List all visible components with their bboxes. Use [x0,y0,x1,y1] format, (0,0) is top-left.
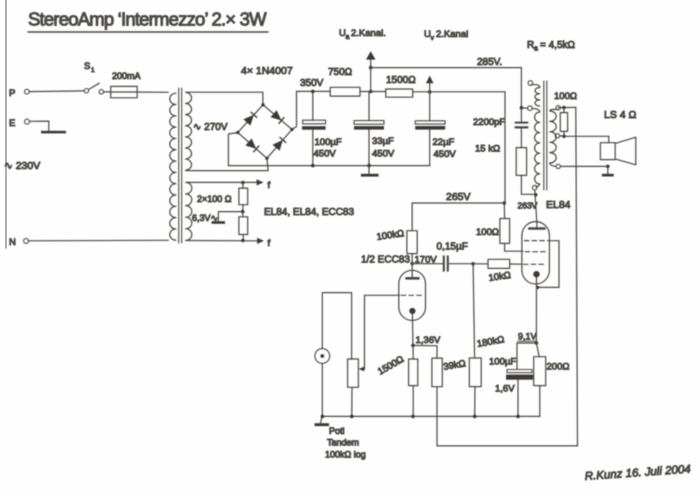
wire cap to grid node [449,263,473,265]
pentode V2 grid g2 [525,251,546,253]
resistor 10kohm grid [473,259,522,268]
wire secondary top to bridge AC1 [187,92,264,105]
diode D2 [271,110,284,123]
svg-text:LS 4 Ω: LS 4 Ω [604,109,637,121]
transformer T1 core [179,88,182,243]
terminal E [9,118,30,129]
resistor 100ohm damping [560,108,567,137]
speaker LS 4ohm [600,137,635,165]
resistor 15kohm [475,144,527,176]
label Ra = 4,5kohm [527,40,576,53]
svg-text:1: 1 [91,67,95,74]
wire cathode to 39k [413,344,437,346]
transformer T2 secondary terminal bottom [556,164,560,168]
terminal P [9,88,29,99]
wire to speaker top [564,136,609,142]
transformer T1 primary winding [170,93,176,240]
svg-text:S: S [84,61,90,72]
switch S1 [84,61,104,94]
wire poti bottom to bus [351,387,353,416]
svg-text:100Ω: 100Ω [476,227,499,238]
wire screen feed [505,243,523,251]
svg-text:450V: 450V [372,149,395,160]
pentode V2 EL84 envelope [522,222,550,284]
label 265V [446,191,471,203]
svg-text:f: f [268,238,271,249]
svg-text:9,1V: 9,1V [518,332,537,342]
svg-text:100µF: 100µF [489,357,516,368]
ground input [315,416,330,426]
svg-text:22µF: 22µF [433,137,455,148]
signature [584,464,691,483]
wire input to poti [322,293,351,359]
svg-text:2200pF: 2200pF [473,117,505,128]
resistor hum 100ohm upper [239,183,248,205]
label 1,6V [495,384,515,395]
svg-text:6,3V∿: 6,3V∿ [192,213,218,223]
wire V2 anode [535,190,537,228]
potentiometer 100k log [348,359,359,387]
svg-text:2×100 Ω: 2×100 Ω [197,194,232,204]
node EL84 grid junction [471,262,475,266]
wire V1 cathode down [411,314,414,346]
svg-text:P: P [9,88,15,99]
capacitor 100uF 1,6V [506,343,536,416]
node speaker hot [562,135,566,139]
arrow heater bottom f [257,238,270,249]
resistor hum 100ohm lower [239,212,248,241]
poti wiper arrow [359,295,365,371]
ground E [41,131,66,134]
svg-text:N: N [9,237,16,248]
wire feedback loop [437,107,578,446]
ground speaker [602,166,614,176]
svg-text:= 4,5kΩ: = 4,5kΩ [540,40,576,51]
svg-text:100µF: 100µF [315,137,342,148]
label Uv 2.Kanal [424,29,468,42]
resistor 200ohm [534,343,546,416]
svg-text:750Ω: 750Ω [328,67,353,78]
wire DC- ground rail [228,164,429,168]
node V1 cathode junction [411,344,415,348]
label LS 4ohm [604,109,637,121]
label 100uF [489,357,516,368]
bridge edge R-T [263,105,292,130]
pentode V2 anode plate [529,227,544,230]
wire rail to preamp [503,92,506,219]
wire snubber to anode [521,175,537,196]
svg-text:4× 1N4007: 4× 1N4007 [241,65,293,77]
svg-text:1/2 ECC83: 1/2 ECC83 [361,255,410,266]
wire snubber mid [520,129,522,148]
transformer T2 secondary winding [550,109,558,166]
resistor 100ohm screen [476,219,510,244]
transformer T1 HV secondary winding [186,92,192,170]
svg-text:StereoAmp ‘Intermezzo’ 2.× 3W: StereoAmp ‘Intermezzo’ 2.× 3W [28,9,267,30]
resistor 100kohm [407,203,417,263]
svg-text:2.Kanal.: 2.Kanal. [351,28,386,39]
label Poti Tandem 100k log [325,426,366,460]
resistor 39kohm feedback [432,346,442,387]
triode V1 cathode [409,308,415,314]
wire center tap to ground [218,212,242,222]
capacitor 2200pF [473,117,528,128]
wire 285V line [371,67,522,69]
wire fuse to transformer [137,91,168,93]
svg-text:v: v [431,35,435,42]
label 2x 100ohm [197,194,232,204]
triode V1 grid [401,294,422,296]
transformer T2 primary terminal bottom [532,185,537,190]
capacitor 0,15uF [437,242,468,271]
svg-text:EL84, EL84, ECC83: EL84, EL84, ECC83 [264,207,354,218]
svg-text:263V: 263V [518,201,538,211]
svg-text:200Ω: 200Ω [547,362,570,373]
label 4x 1N4007 [241,65,293,77]
wire B+ to primary tap [521,107,527,109]
label Ua 2.Kanal [339,28,386,41]
label 285V [477,57,502,68]
resistor 750ohm [328,67,360,96]
wire g3 strap to cathode [536,241,559,289]
label 180kohm [476,334,505,350]
transformer T2 secondary terminal top [556,106,560,110]
wire rail segment 3 [413,91,505,93]
label 100ohm damping [554,91,577,102]
svg-text:∿ 270V: ∿ 270V [193,122,228,133]
wire ground bus [321,415,540,419]
transformer T1 heater winding [186,182,192,240]
svg-text:∿ 230V: ∿ 230V [4,160,40,172]
ground PSU [361,166,379,177]
node Ua junction [369,90,373,94]
wire heater top [187,181,258,185]
svg-text:EL84: EL84 [546,199,571,211]
fuse 200mA [104,71,141,98]
svg-text:0,15µF: 0,15µF [437,242,468,253]
svg-text:Tandem: Tandem [327,438,359,448]
node 285V junction [369,66,373,70]
label EL84 EL84 ECC83 [264,207,354,218]
transformer T2 core [544,81,547,190]
wire V1 grid to poti wiper [365,294,400,296]
bridge edge T-L [238,105,263,133]
bridge edge L-B [238,133,267,159]
node 265V junction [503,201,507,205]
wire tap to speaker node [560,135,564,137]
capacitor 33uF 450V [354,92,395,166]
label 1/2 ECC83 [361,255,410,266]
node V2 cathode junction [535,341,539,345]
pentode V2 grid g3 [524,240,547,242]
transformer T2 primary winding upper [531,85,540,106]
arrow heater top f [257,179,271,191]
svg-text:2.Kanal: 2.Kanal [436,29,468,40]
label 1500ohm cathode [376,354,406,378]
svg-text:33µF: 33µF [372,136,394,147]
label 39kohm [443,358,467,373]
wire E to ground [30,121,49,131]
svg-text:1,6V: 1,6V [495,384,515,395]
svg-text:450V: 450V [434,149,457,160]
takeoff arrow Ua [366,51,376,91]
wire N to transformer [28,239,168,242]
label 9,1V [518,332,537,342]
wire secondary top [558,106,576,110]
wire rail segment 1 [297,90,331,92]
transformer T2 primary tap [528,106,533,111]
svg-text:200mA: 200mA [112,71,141,81]
ground heater [212,221,226,224]
svg-text:350V: 350V [300,78,324,89]
wire secondary bottom to bridge AC2 [186,158,268,170]
terminal N [9,237,28,248]
triode V1 ECC83 envelope [399,270,426,320]
wire P to switch [29,90,84,93]
node Uv junction [428,90,432,94]
capacitor 22uF 450V [415,92,456,166]
wire secondary bottom to speaker [560,165,609,169]
input jack [315,349,330,364]
resistor 1500ohm cathode [409,345,418,416]
svg-text:a: a [346,34,350,41]
label 350V [300,78,324,89]
svg-text:1500Ω: 1500Ω [386,75,416,86]
wire V1 anode [411,264,413,278]
svg-text:100kΩ log: 100kΩ log [325,450,366,460]
label 263V [518,201,538,211]
svg-text:1,36V: 1,36V [416,335,441,346]
wire rail segment 2 [360,91,386,93]
label 100kohm [376,228,405,243]
bridge corner junctions [236,103,294,160]
pentode V2 cathode [533,271,539,277]
capacitor 100uF 450V [302,90,342,166]
label 10kohm [488,270,512,284]
label 1,36V [416,335,441,346]
wire bridge DC+ to rail [292,91,297,129]
node 170V anode [410,262,414,266]
wire heater bottom [187,239,258,243]
wire 265V line [412,202,504,204]
wire V2 cathode down [535,277,537,344]
svg-text:a: a [534,46,538,53]
label 170V [415,255,438,266]
label 6,3V [192,213,218,223]
pentode V2 grid g1 [524,263,547,265]
svg-text:450V: 450V [314,149,337,160]
svg-text:f: f [268,180,271,191]
svg-text:100Ω: 100Ω [554,91,577,102]
label 200ohm [547,362,570,373]
wire V1 anode to cap [412,263,442,265]
label 270V [193,122,228,133]
svg-text:15 kΩ: 15 kΩ [475,144,500,155]
transformer T2 secondary tap [555,134,559,138]
label EL84 [546,199,571,211]
wire bridge DC- to ground rail [228,133,237,166]
triode V1 anode plate [406,277,418,280]
diode D3 [245,138,258,151]
resistor 1500ohm [386,89,413,97]
title [28,9,268,33]
wire input sleeve to bus [321,363,323,416]
svg-text:285V.: 285V. [477,57,502,68]
resistor 180kohm [469,264,481,417]
takeoff arrow Uv [426,76,434,92]
transformer T2 primary terminal top [528,81,533,86]
bridge edge B-R [267,129,292,158]
diode D4 [273,137,286,150]
svg-text:E: E [9,118,15,129]
diode D1 [243,112,256,125]
svg-text:265V: 265V [446,191,471,203]
node heater center tap [241,205,245,214]
label 1500ohm [386,75,416,86]
svg-text:Poti: Poti [329,426,345,436]
wire 285V to snubber [520,68,524,122]
transformer T2 primary winding lower [532,108,540,187]
label mains 230V [4,160,40,172]
